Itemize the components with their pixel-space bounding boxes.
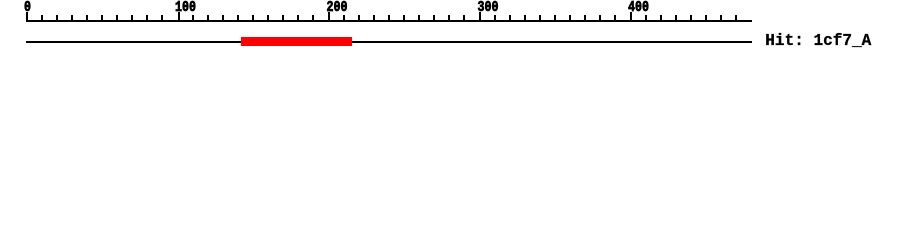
major tick 200 — [328, 12, 330, 22]
ruler axis line — [26, 20, 752, 22]
minor ticks every 10 units — [41, 15, 737, 22]
major tick 0 — [26, 12, 28, 22]
major tick 100 — [178, 12, 180, 22]
hit alignment bar (red) — [241, 37, 352, 46]
svg-text:200: 200 — [327, 0, 348, 16]
major tick 400 — [630, 12, 632, 22]
svg-text:100: 100 — [175, 0, 196, 16]
svg-text:0: 0 — [24, 0, 31, 16]
svg-text:300: 300 — [478, 0, 499, 16]
svg-text:Hit: 1cf7_A: Hit: 1cf7_A — [765, 31, 871, 50]
major tick 300 — [479, 12, 481, 22]
query sequence line — [26, 41, 752, 43]
svg-text:400: 400 — [628, 0, 649, 16]
